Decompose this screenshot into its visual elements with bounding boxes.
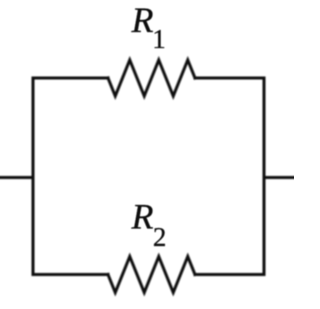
wire: right output lead [264,176,294,179]
wire: left vertical branch [32,78,35,275]
wire: left input lead [0,176,33,179]
label R1 [131,0,166,54]
wire: top-left segment [33,77,108,80]
resistor R2 [108,257,195,293]
wire: bottom-right segment [195,273,264,276]
svg-text:2: 2 [153,222,167,252]
label R2 [131,197,167,253]
svg-text:1: 1 [152,24,166,54]
resistor R1 [108,60,195,96]
wire: bottom-left segment [33,273,108,276]
svg-text:R: R [131,197,154,237]
wire: top-right segment [195,77,264,80]
svg-text:R: R [131,0,154,40]
wire: right vertical branch [263,78,266,275]
